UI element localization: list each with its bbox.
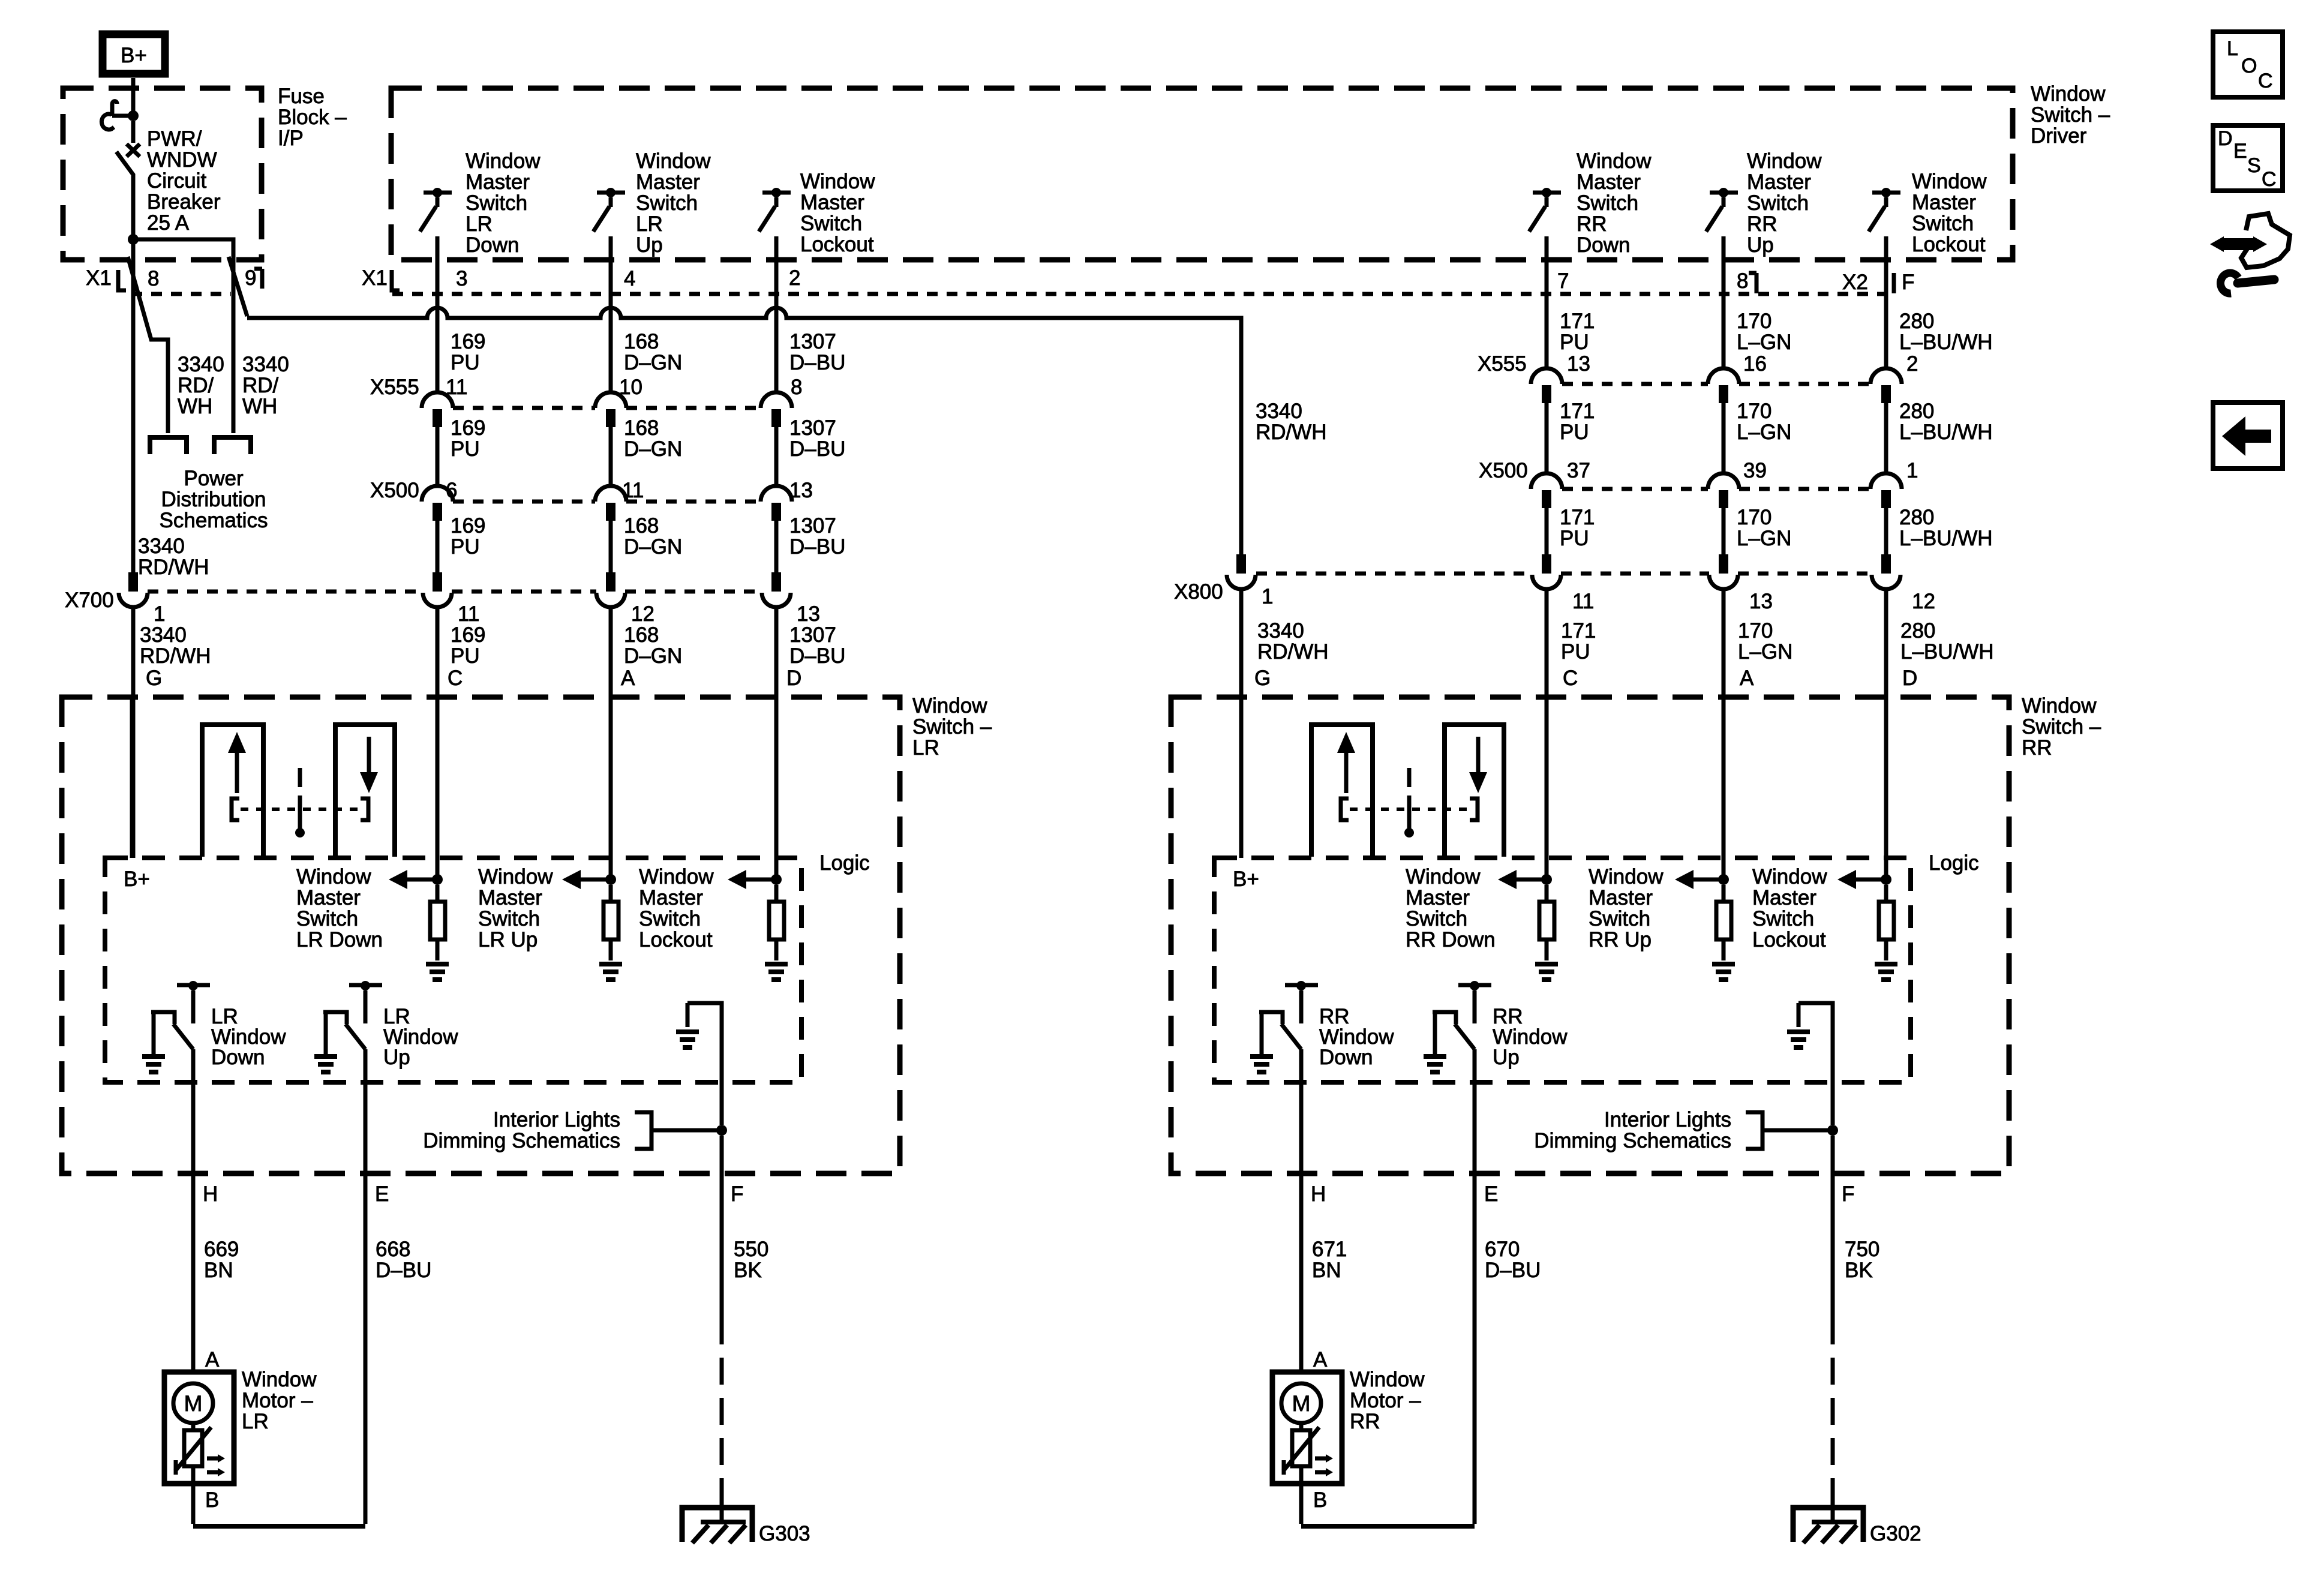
- resistor p: [1722, 885, 1726, 902]
- svg-text:F: F: [731, 1182, 743, 1206]
- label 280 L–BU/WH run4 pin D: [1900, 590, 1994, 690]
- label Power Distribution Schematics: [160, 467, 268, 532]
- icon LOC box: [2213, 32, 2283, 97]
- dashed interface line X700: [148, 590, 762, 594]
- svg-text:2: 2: [1906, 352, 1918, 376]
- label 3340 RD/WH above X800: [1256, 400, 1327, 444]
- svg-text:C: C: [448, 667, 463, 690]
- svg-text:Logic: Logic: [819, 851, 870, 875]
- svg-text:670: 670: [1485, 1238, 1520, 1261]
- svg-text:Down: Down: [1319, 1046, 1373, 1069]
- svg-text:G303: G303: [759, 1522, 810, 1545]
- svg-text:3: 3: [456, 267, 467, 290]
- svg-text:RD/WH: RD/WH: [1257, 640, 1329, 664]
- svg-text:L–GN: L–GN: [1737, 331, 1791, 354]
- label Window Master Switch RR Up: [1589, 865, 1664, 951]
- svg-text:M: M: [1292, 1391, 1311, 1416]
- label window master switch RR up: [1747, 149, 1822, 257]
- svg-text:Interior Lights: Interior Lights: [1604, 1108, 1731, 1131]
- svg-text:Circuit: Circuit: [147, 169, 206, 193]
- switch RR window down: [1250, 981, 1318, 1072]
- svg-text:169: 169: [451, 514, 485, 538]
- wire 3340 RD/WH pin9 to power distribution: [232, 260, 236, 433]
- svg-text:B: B: [1313, 1488, 1327, 1512]
- svg-text:BN: BN: [1312, 1259, 1341, 1282]
- label circuit 670 D-BU: [1485, 1238, 1541, 1282]
- svg-text:171: 171: [1560, 400, 1595, 423]
- resistor p: [609, 885, 613, 902]
- svg-text:WH: WH: [242, 395, 277, 418]
- svg-text:Switch: Switch: [1577, 191, 1638, 215]
- svg-text:Master: Master: [1912, 191, 1976, 214]
- svg-text:170: 170: [1737, 506, 1771, 529]
- label Interior Lights Dimming Schematics: [423, 1108, 620, 1152]
- svg-text:X500: X500: [1479, 459, 1528, 482]
- svg-text:RR Up: RR Up: [1589, 928, 1652, 951]
- connector X500 pin 13: [761, 486, 792, 502]
- svg-text:3340: 3340: [1256, 400, 1302, 423]
- svg-text:669: 669: [204, 1238, 239, 1261]
- svg-text:Switch: Switch: [639, 907, 701, 930]
- svg-text:RD/WH: RD/WH: [140, 644, 211, 668]
- label Window Master Switch Lockout: [639, 865, 714, 951]
- connector X700 pin 1 on feed wire: [128, 572, 138, 592]
- svg-text:Master: Master: [1747, 170, 1811, 194]
- svg-text:X2: X2: [1842, 271, 1868, 294]
- wire 171 PU to switch RR: [1545, 589, 1549, 879]
- connector X555 pin 2: [1870, 368, 1902, 384]
- node tap t: [1881, 874, 1891, 885]
- svg-text:Window: Window: [1752, 865, 1827, 888]
- wire jog pin8 to power distribution: [128, 257, 168, 433]
- pin numbers X500 left: [446, 479, 813, 502]
- wire 3340 RD/WH feeder to X800: [247, 308, 1241, 554]
- wire 280 L–BU/WH to switch RR: [1884, 589, 1888, 879]
- svg-text:11: 11: [622, 479, 644, 502]
- switch LR window down: [142, 981, 210, 1072]
- svg-text:Schematics: Schematics: [160, 509, 268, 532]
- svg-text:A: A: [205, 1348, 220, 1371]
- wire motor return loop: [191, 1484, 196, 1524]
- svg-text:170: 170: [1738, 619, 1773, 643]
- svg-text:Window: Window: [2022, 694, 2097, 718]
- svg-text:D: D: [2218, 127, 2233, 150]
- connector X2 driver switch pins 7 8 F: [1557, 269, 1914, 294]
- svg-text:LR: LR: [636, 212, 663, 236]
- label 170 L–GN run2: [1737, 400, 1791, 444]
- svg-text:Up: Up: [383, 1046, 410, 1069]
- ground logic F: [1787, 1029, 1810, 1034]
- switch LR window up: [314, 981, 382, 1072]
- svg-text:Driver: Driver: [2031, 124, 2087, 148]
- svg-text:Up: Up: [1493, 1046, 1520, 1069]
- svg-text:O: O: [2241, 55, 2257, 77]
- label RR window down: [1319, 1005, 1394, 1069]
- svg-text:Lockout: Lockout: [1912, 233, 1986, 256]
- switch window master switch lockout left: [759, 188, 791, 232]
- wire 1307 D–BU: [774, 521, 779, 572]
- svg-text:H: H: [203, 1182, 218, 1206]
- label 171 PU run3: [1560, 506, 1595, 550]
- svg-text:L–BU/WH: L–BU/WH: [1899, 421, 1993, 444]
- svg-text:Switch: Switch: [296, 907, 358, 930]
- svg-text:Switch: Switch: [1589, 907, 1650, 930]
- switch window master switch RR up: [1706, 188, 1738, 232]
- connector X500 pin 39: [1708, 473, 1739, 489]
- svg-text:X555: X555: [370, 376, 419, 399]
- svg-text:12: 12: [1912, 590, 1935, 613]
- power symbol B+: [103, 34, 165, 74]
- svg-text:E: E: [1484, 1182, 1498, 1206]
- svg-text:10: 10: [619, 376, 642, 399]
- svg-text:H: H: [1311, 1182, 1326, 1206]
- wire lockout ground net F: [687, 1003, 722, 1125]
- svg-text:F: F: [1902, 271, 1914, 294]
- svg-text:Switch: Switch: [1912, 212, 1974, 235]
- svg-text:Down: Down: [211, 1046, 265, 1069]
- svg-text:Switch: Switch: [478, 907, 540, 930]
- svg-text:Switch: Switch: [1747, 191, 1809, 215]
- label window master switch LR up: [636, 149, 711, 257]
- node interior lights tap: [716, 1125, 727, 1136]
- svg-text:D–BU: D–BU: [376, 1259, 431, 1282]
- wire motor feed E: [1473, 1049, 1477, 1524]
- svg-text:WNDW: WNDW: [147, 148, 217, 172]
- dashed interface line X500 right: [1562, 487, 1870, 491]
- wire 550/750 BK dashed to G302: [1831, 1317, 1835, 1491]
- svg-text:D–BU: D–BU: [789, 437, 845, 461]
- pin numbers X555 right: [1567, 352, 1918, 376]
- node tap t: [771, 874, 782, 885]
- wire 171 PU: [1545, 403, 1549, 473]
- svg-text:11: 11: [446, 376, 467, 399]
- svg-text:171: 171: [1561, 619, 1596, 643]
- wire motor feed H: [1299, 1049, 1304, 1372]
- switch window master switch RR down: [1529, 188, 1561, 232]
- pin numbers X500 right: [1567, 459, 1918, 482]
- svg-text:X1: X1: [362, 266, 388, 290]
- label 3340 RD/WH right: [242, 353, 289, 418]
- svg-text:Window: Window: [1406, 865, 1481, 888]
- wire circuit 170 L–GN column: [1722, 236, 1726, 368]
- svg-text:B+: B+: [124, 867, 150, 891]
- svg-text:3340: 3340: [140, 623, 187, 647]
- ground internal n: [1535, 962, 1558, 966]
- connector X800 pin 12: [1881, 554, 1891, 574]
- connector X555 pin 13: [1531, 368, 1562, 384]
- off-page bracket interior lights: [635, 1112, 651, 1149]
- dashed interface line X1/X2 row: [392, 292, 1893, 296]
- wire 168 D–GN: [609, 427, 613, 486]
- label 171 PU run1: [1560, 310, 1595, 354]
- svg-text:1307: 1307: [789, 416, 836, 440]
- svg-text:WH: WH: [178, 395, 212, 418]
- wire circuit 169 PU column: [436, 236, 440, 392]
- wire lockout ground net F: [1798, 1003, 1833, 1125]
- svg-text:D: D: [786, 667, 801, 690]
- svg-text:668: 668: [376, 1238, 410, 1261]
- svg-text:X500: X500: [370, 479, 419, 502]
- label Window Master Switch LR Up: [478, 865, 553, 951]
- label 171 PU run4 pin C: [1561, 590, 1596, 690]
- wire 168 D–GN: [609, 521, 613, 572]
- label 280 L–BU/WH run3: [1899, 506, 1993, 550]
- svg-text:L: L: [2227, 37, 2238, 60]
- svg-text:RR Down: RR Down: [1406, 928, 1496, 951]
- wire 170 L–GN: [1722, 403, 1726, 473]
- svg-text:Window: Window: [466, 149, 541, 173]
- switch window master switch LR down: [420, 188, 452, 232]
- svg-text:Lockout: Lockout: [800, 233, 874, 256]
- label 280 L–BU/WH run1: [1899, 310, 1993, 354]
- svg-text:LR Down: LR Down: [296, 928, 383, 951]
- svg-text:PU: PU: [1560, 331, 1589, 354]
- connector X500 pin 11: [595, 486, 626, 502]
- label 170 L–GN run1: [1737, 310, 1791, 354]
- label 169 PU run2: [451, 416, 485, 461]
- svg-text:L–GN: L–GN: [1737, 421, 1791, 444]
- svg-text:Switch –: Switch –: [2031, 103, 2110, 127]
- svg-text:B+: B+: [1233, 867, 1259, 891]
- connector X555 pin 16: [1708, 368, 1739, 384]
- ground internal t: [1875, 962, 1897, 966]
- svg-text:Block –: Block –: [278, 106, 347, 129]
- rocker switch actuator RR: [1311, 725, 1504, 857]
- connector X555 pin 11: [422, 392, 453, 408]
- wire 1307 D–BU: [774, 427, 779, 486]
- node tap n: [432, 874, 443, 885]
- label circuit 750 BK: [1845, 1238, 1879, 1282]
- svg-text:S: S: [2247, 154, 2261, 177]
- svg-text:RR: RR: [1350, 1410, 1380, 1433]
- svg-text:168: 168: [624, 623, 659, 647]
- svg-text:Interior Lights: Interior Lights: [493, 1108, 620, 1131]
- wire 3340 RD/WH pin8 to X700: [131, 260, 136, 572]
- label Interior Lights Dimming Schematics: [1534, 1108, 1731, 1152]
- svg-text:Switch: Switch: [800, 212, 862, 235]
- svg-text:Lockout: Lockout: [1752, 928, 1826, 951]
- svg-text:Master: Master: [1406, 886, 1470, 909]
- resistor n: [1545, 885, 1549, 902]
- svg-text:C: C: [2262, 168, 2277, 191]
- svg-text:PU: PU: [1560, 421, 1589, 444]
- svg-text:D–BU: D–BU: [789, 644, 845, 668]
- svg-text:13: 13: [789, 479, 813, 502]
- connector X700 pin 12: [606, 572, 615, 592]
- svg-text:3340: 3340: [138, 535, 185, 558]
- node tap p: [1718, 874, 1729, 885]
- label Window Motor LR: [242, 1368, 317, 1433]
- switch RR window up: [1424, 981, 1491, 1072]
- label Fuse Block I/P: [278, 85, 347, 150]
- label 3340 RD/WH G right: [1254, 619, 1329, 690]
- window switch LR dashed box: [62, 697, 900, 1173]
- svg-text:Distribution: Distribution: [161, 488, 266, 511]
- svg-text:RR: RR: [2022, 736, 2052, 760]
- svg-text:Up: Up: [636, 233, 663, 257]
- svg-text:D–GN: D–GN: [624, 351, 682, 374]
- svg-text:B: B: [205, 1488, 219, 1512]
- resistor t: [774, 885, 779, 902]
- label 168 D–GN run3: [624, 514, 682, 559]
- label 170 L–GN run3: [1737, 506, 1791, 550]
- connector X700 pin 13: [771, 572, 781, 592]
- svg-text:Logic: Logic: [1929, 851, 1979, 875]
- svg-text:BK: BK: [734, 1259, 762, 1282]
- svg-text:Window: Window: [639, 865, 714, 888]
- resistor t: [1884, 885, 1888, 902]
- svg-text:I/P: I/P: [278, 127, 304, 150]
- svg-text:Window: Window: [1747, 149, 1822, 173]
- svg-text:37: 37: [1567, 459, 1590, 482]
- label Window Master Switch Lockout: [1752, 865, 1827, 951]
- svg-text:Fuse: Fuse: [278, 85, 325, 108]
- label 1307 D–BU run3: [789, 514, 845, 559]
- svg-text:1: 1: [154, 602, 165, 626]
- svg-text:X1: X1: [86, 266, 112, 290]
- svg-text:Window: Window: [1577, 149, 1652, 173]
- svg-text:Master: Master: [1589, 886, 1653, 909]
- svg-text:Window: Window: [1350, 1368, 1425, 1391]
- label 1307 D–BU run4 pin D: [786, 602, 845, 690]
- svg-text:168: 168: [624, 330, 659, 353]
- wire 550/750 BK dashed to G303: [720, 1317, 724, 1491]
- svg-text:X800: X800: [1174, 580, 1223, 604]
- svg-text:3340: 3340: [1257, 619, 1304, 643]
- svg-text:Switch: Switch: [636, 191, 698, 215]
- svg-text:7: 7: [1557, 269, 1569, 293]
- svg-text:170: 170: [1737, 310, 1771, 333]
- wire B+ to breaker: [131, 78, 136, 112]
- svg-text:Power: Power: [184, 467, 244, 490]
- svg-text:16: 16: [1743, 352, 1767, 376]
- svg-text:2: 2: [789, 266, 800, 290]
- svg-text:PU: PU: [451, 437, 480, 461]
- svg-text:168: 168: [624, 416, 659, 440]
- node tap n: [1541, 874, 1552, 885]
- svg-text:8: 8: [148, 267, 159, 290]
- connector X1 fuse block pins 8 9: [86, 266, 262, 294]
- node interior lights tap: [1827, 1125, 1838, 1136]
- wire 169 PU: [436, 521, 440, 572]
- dashed interface line X555 right: [1562, 382, 1870, 386]
- svg-text:RD/WH: RD/WH: [138, 556, 209, 579]
- label 1307 D–BU run2: [789, 416, 845, 461]
- svg-text:170: 170: [1737, 400, 1771, 423]
- svg-text:169: 169: [451, 330, 485, 353]
- label Window Master Switch RR Down: [1406, 865, 1496, 951]
- svg-text:Master: Master: [296, 886, 361, 909]
- svg-text:D–GN: D–GN: [624, 437, 682, 461]
- wire circuit 280 L–BU/WH column: [1884, 236, 1888, 368]
- label 169 PU run3: [451, 514, 485, 559]
- svg-text:C: C: [1563, 667, 1578, 690]
- label Window Motor RR: [1350, 1368, 1425, 1433]
- svg-text:LR: LR: [242, 1410, 269, 1433]
- svg-text:D: D: [1902, 667, 1917, 690]
- ground internal p: [1712, 962, 1735, 966]
- svg-text:Down: Down: [1577, 233, 1630, 257]
- icon back arrow box: [2213, 403, 2283, 469]
- ground switch down: [142, 1054, 165, 1059]
- svg-text:Window: Window: [1912, 170, 1987, 193]
- svg-text:Window: Window: [800, 170, 875, 193]
- label RR window up: [1493, 1005, 1568, 1069]
- label 170 L–GN run4 pin A: [1738, 590, 1792, 690]
- label Window Switch Driver: [2031, 82, 2110, 148]
- logic dashed box RR: [1214, 858, 1911, 1082]
- label window master switch LR down: [466, 149, 541, 257]
- logic dashed box LR: [105, 858, 801, 1082]
- svg-text:Window: Window: [1589, 865, 1664, 888]
- svg-text:Up: Up: [1747, 233, 1774, 257]
- svg-text:169: 169: [451, 623, 485, 647]
- svg-text:671: 671: [1312, 1238, 1347, 1261]
- label Window Master Switch LR Down: [296, 865, 383, 951]
- svg-text:PU: PU: [451, 644, 480, 668]
- label 168 D–GN run2: [624, 416, 682, 461]
- svg-text:LR: LR: [466, 212, 493, 236]
- label window master switch RR down: [1577, 149, 1652, 257]
- label 3340 RD/WH left: [178, 353, 224, 418]
- label circuit 550 BK: [734, 1238, 768, 1282]
- svg-text:PU: PU: [1560, 527, 1589, 550]
- window switch driver dashed box: [391, 88, 2013, 260]
- svg-text:L–GN: L–GN: [1738, 640, 1792, 664]
- svg-text:RR: RR: [1577, 212, 1607, 236]
- svg-text:A: A: [621, 667, 635, 690]
- ground internal p: [599, 962, 622, 966]
- wire 170 L–GN: [1722, 508, 1726, 554]
- chassis ground G302: [1793, 1491, 1863, 1543]
- svg-text:BK: BK: [1845, 1259, 1873, 1282]
- svg-text:Master: Master: [478, 886, 542, 909]
- svg-text:E: E: [2233, 140, 2247, 163]
- ground internal t: [765, 962, 788, 966]
- svg-text:F: F: [1842, 1182, 1854, 1206]
- svg-text:1: 1: [1906, 459, 1918, 482]
- svg-text:Down: Down: [466, 233, 519, 257]
- svg-text:13: 13: [1567, 352, 1590, 376]
- svg-text:Window: Window: [912, 694, 987, 718]
- svg-text:39: 39: [1743, 459, 1767, 482]
- svg-text:280: 280: [1899, 506, 1934, 529]
- svg-text:Master: Master: [639, 886, 703, 909]
- wire 171 PU: [1545, 508, 1549, 554]
- svg-text:Switch: Switch: [466, 191, 527, 215]
- label circuit 671 BN: [1312, 1238, 1347, 1282]
- svg-text:169: 169: [451, 416, 485, 440]
- resistor n: [436, 885, 440, 902]
- window switch RR dashed box: [1171, 697, 2009, 1173]
- connector X1 driver switch pins 3 4 2: [362, 266, 800, 290]
- svg-text:11: 11: [1572, 590, 1594, 613]
- fuse block I/P dashed box: [63, 88, 262, 260]
- wire circuit 1307 D–BU column: [774, 236, 779, 392]
- rocker switch actuator LR: [202, 725, 395, 857]
- wire jog pin9 to feeder: [229, 257, 247, 316]
- svg-text:B+: B+: [121, 44, 147, 67]
- svg-text:A: A: [1313, 1348, 1328, 1371]
- connector X500 pin 37: [1531, 473, 1562, 489]
- svg-text:D–BU: D–BU: [789, 535, 845, 559]
- off-page symbol power distribution 1: [150, 437, 187, 454]
- connector X800 pin 13: [1719, 554, 1728, 574]
- svg-text:13: 13: [1749, 590, 1773, 613]
- svg-text:3340: 3340: [178, 353, 224, 376]
- svg-text:Master: Master: [1577, 170, 1641, 194]
- label circuit 668 D-BU: [376, 1238, 431, 1282]
